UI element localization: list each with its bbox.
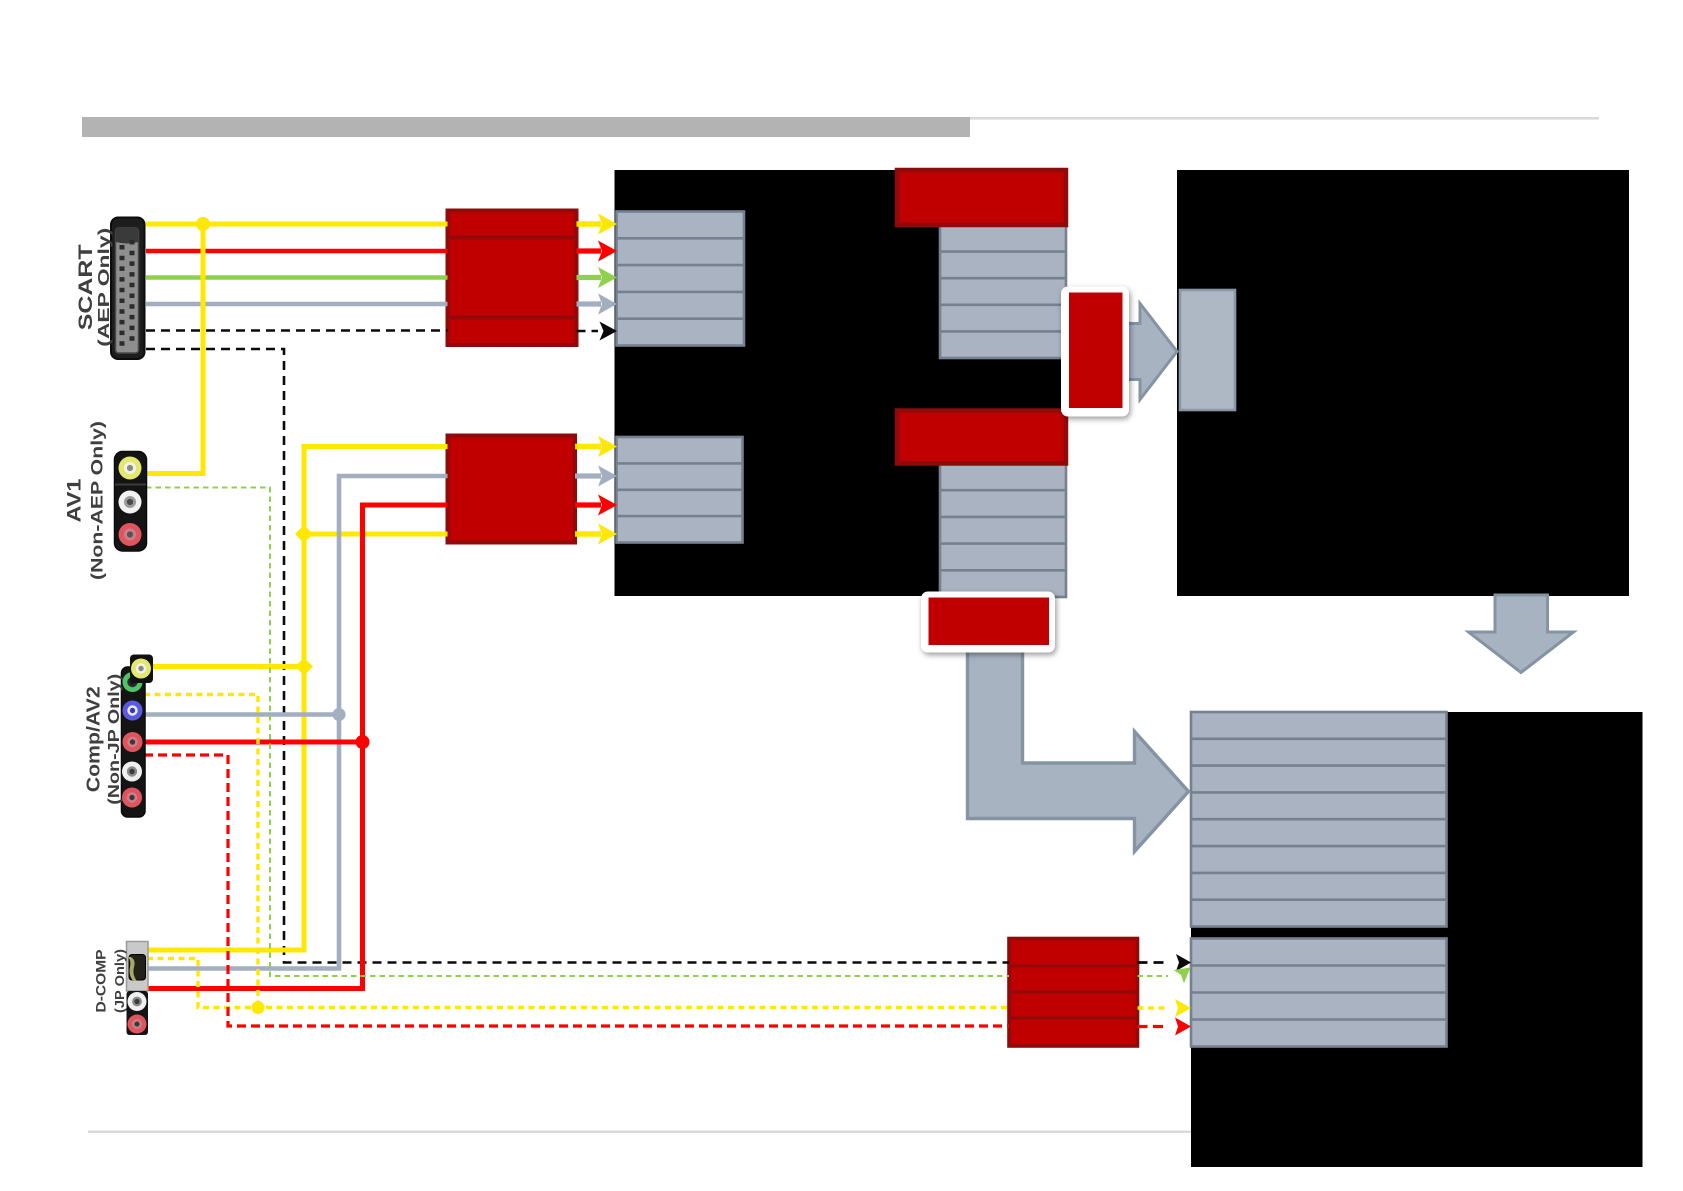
arrow red dashed into D row4 <box>1138 1025 1169 1028</box>
red processor box R1 (SCART) <box>448 211 577 346</box>
arrow black dashed into S1 row5 <box>577 330 599 333</box>
CompAV2 red RCA jack <box>123 732 143 752</box>
AV1 white RCA jack <box>119 491 142 514</box>
black panel 2 (right block) <box>1177 170 1629 596</box>
wire yellow dashed elbow (CompAV2 to junction) <box>144 695 258 1008</box>
arrow yellow into S1 row1 <box>577 221 602 227</box>
gray row stack C (panel3 top, 8 rows) <box>1191 712 1447 927</box>
wire SCART video yellow <box>146 222 448 227</box>
junction diamond yellow upper <box>295 525 313 543</box>
label AV1 (Non-AEP Only) <box>64 421 106 580</box>
arrow yellow dashed into D row3 <box>1138 1006 1169 1009</box>
CompAV2 yellow jack housing <box>130 655 153 684</box>
wire SCART audio red <box>146 249 448 254</box>
label D-COMP (JP Only) <box>93 949 126 1013</box>
DCOMP black housing <box>127 991 149 1035</box>
black panel 3 (bottom right block) <box>1191 712 1643 1167</box>
block elbow arrow (down then right into panel 3) <box>968 650 1189 852</box>
gray row stack D (panel3 mid, 4 rows) <box>1191 939 1447 1047</box>
AV1 connector section gap <box>115 484 146 486</box>
wire gray trunk (CompAV2+DCOMP to R2 row2) <box>147 476 448 969</box>
SCART pin column 1 <box>120 245 125 350</box>
CompAV2 blue RCA jack <box>123 701 143 721</box>
CompAV2 green RCA jack <box>123 672 143 692</box>
white-framed red tag V (vertical, over arrow right) <box>1061 287 1129 417</box>
wire yellow branch to R2 row4 <box>304 532 448 537</box>
gray row stack S2 (AV1 inputs, 4 rows) <box>617 437 743 543</box>
wire yellow trunk (CompAV2+DCOMP to R2 top) <box>147 447 448 951</box>
svg-text:(JP Only): (JP Only) <box>112 949 127 1013</box>
red processor box R2 (AV1) <box>448 436 576 543</box>
wire red branch from CompAV2 red jack <box>145 740 363 745</box>
DCOMP red RCA jack <box>128 1015 147 1034</box>
wire red dashed elbow (CompAV2 to R3 row4) <box>144 755 1009 1026</box>
top gray title bar <box>82 117 970 137</box>
arrow yellow into S2 row4 <box>575 531 601 537</box>
wire SCART Y/C gray <box>146 302 448 307</box>
CompAV2 white RCA jack <box>122 762 142 782</box>
arrow gray into S1 row4 <box>577 301 602 306</box>
SCART connector body <box>111 218 145 360</box>
wire yellow dashed elbow (DCOMP to R3 row3) <box>147 959 1009 1008</box>
DCOMP connector silver housing <box>127 942 149 992</box>
wire green dashed elbow (AV1 to R3 row2) <box>146 488 1009 977</box>
top thin divider line <box>970 117 1599 120</box>
gray row stack S1 (SCART inputs, 5 rows) <box>617 212 745 346</box>
arrow red into S1 row2 <box>577 248 602 253</box>
red header H2 on panel 1 <box>897 411 1066 464</box>
white-framed red tag B (bottom of panel 1) <box>921 592 1055 653</box>
CompAV2 red2 RCA jack <box>122 788 142 808</box>
SCART connector top shadow <box>116 228 139 243</box>
gray row stack A (panel1 top-right, 5 rows) <box>940 225 1066 358</box>
junction dot yellow dashed <box>252 1001 265 1014</box>
red processor box R3 (D-COMP) <box>1009 939 1138 1047</box>
DCOMP white RCA jack <box>128 992 147 1011</box>
red header H1 on panel 1 <box>897 170 1066 225</box>
svg-text:(Non-AEP Only): (Non-AEP Only) <box>87 421 106 580</box>
wire AV1 yellow riser to SCART junction <box>146 224 203 474</box>
black panel 1 (signal select block) <box>615 170 1067 596</box>
wire SCART RGB green <box>146 275 448 280</box>
CompAV2 yellow RCA jack <box>131 659 151 679</box>
svg-text:Comp/AV2: Comp/AV2 <box>83 686 103 792</box>
AV1 connector body <box>115 452 147 552</box>
wire yellow branch from CompAV2 jack <box>151 664 304 669</box>
arrow green diagonal into D row2 <box>1138 975 1169 977</box>
wire SCART control black dashed <box>146 329 448 332</box>
wire SCART status black dashed elbow (down to D-COMP row) <box>146 349 1009 963</box>
label SCART (AEP Only) <box>76 228 113 347</box>
block arrow down (below panel 2) <box>1469 595 1574 673</box>
svg-text:D-COMP: D-COMP <box>93 950 108 1013</box>
DCOMP D-port highlight <box>128 957 137 981</box>
SCART connector inner shell <box>116 228 139 353</box>
CompAV2 connector body <box>122 667 146 817</box>
arrow gray into S2 row2 <box>575 473 601 478</box>
svg-text:SCART: SCART <box>76 244 97 331</box>
arrow black dashed into D row1 <box>1138 961 1169 964</box>
junction diamond yellow lower <box>295 658 313 676</box>
junction dot red <box>356 735 370 749</box>
label Comp/AV2 (Non-JP Only) <box>83 674 123 805</box>
wire gray branch from CompAV2 blue jack <box>145 712 339 717</box>
arrow red into S2 row3 <box>575 502 601 507</box>
SCART pin column 2 <box>130 240 135 345</box>
AV1 yellow RCA jack <box>119 457 142 480</box>
svg-text:AV1: AV1 <box>64 478 85 523</box>
arrow green into S1 row3 <box>577 275 602 280</box>
junction dot yellow on SCART video <box>196 217 210 231</box>
arrow yellow into S2 row1 <box>575 444 601 450</box>
block arrow right (panel1 to panel2) <box>1112 304 1177 400</box>
svg-text:(AEP Only): (AEP Only) <box>96 228 113 347</box>
bottom thin divider line <box>88 1131 1191 1133</box>
junction dot gray <box>333 708 346 721</box>
wire red trunk (CompAV2+DCOMP to R2 row3) <box>147 505 448 989</box>
gray port box on panel 2 <box>1180 290 1235 410</box>
gray row stack B (panel1 bottom-right, 5 rows) <box>940 464 1066 598</box>
svg-text:(Non-JP Only): (Non-JP Only) <box>106 674 123 805</box>
AV1 red RCA jack <box>119 523 142 546</box>
DCOMP D-port <box>129 955 146 981</box>
